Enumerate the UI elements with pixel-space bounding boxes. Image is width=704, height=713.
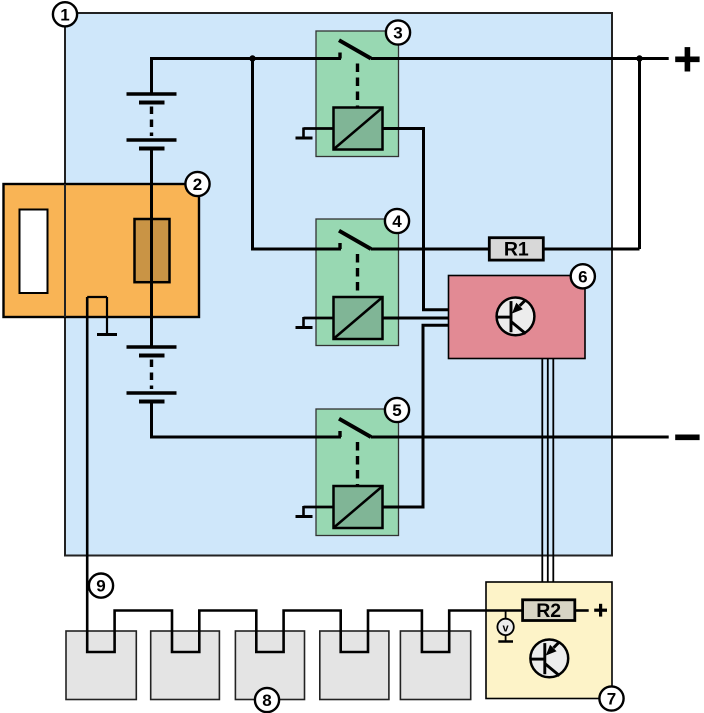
svg-text:4: 4 [392,212,402,231]
svg-text:7: 7 [607,690,616,709]
svg-text:9: 9 [96,577,105,596]
svg-text:3: 3 [393,24,402,43]
svg-text:8: 8 [262,691,271,710]
svg-text:R2: R2 [536,600,561,622]
svg-text:5: 5 [392,401,401,420]
svg-text:v: v [503,622,510,634]
svg-text:6: 6 [578,267,587,286]
svg-text:R1: R1 [504,239,529,261]
svg-text:2: 2 [193,175,202,194]
svg-text:1: 1 [60,5,69,24]
